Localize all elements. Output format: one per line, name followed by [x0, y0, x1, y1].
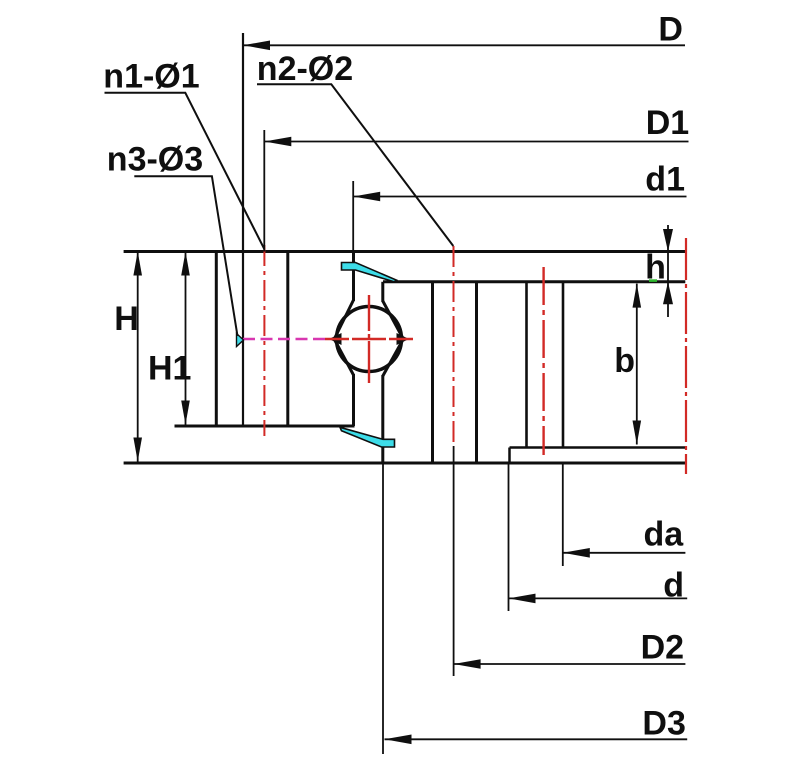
- D3 dimension line: [385, 738, 688, 740]
- green mark under h: [649, 279, 657, 282]
- svg-text:b: b: [614, 342, 635, 380]
- raceway left shoulder upper: [352, 252, 355, 302]
- raceway left shoulder lower: [352, 374, 355, 426]
- da hole right edge / da extension: [562, 282, 565, 448]
- svg-text:n2-Ø2: n2-Ø2: [257, 50, 353, 88]
- svg-text:d: d: [663, 567, 684, 605]
- red centerline ball horizontal: [325, 338, 413, 340]
- n1 hole left edge / D extension line: [242, 33, 244, 426]
- svg-text:D3: D3: [642, 704, 685, 742]
- red centerline da holes: [542, 267, 544, 455]
- bottom face line (with H extension): [124, 462, 686, 465]
- svg-text:da: da: [644, 515, 685, 553]
- svg-text:H: H: [114, 300, 139, 338]
- n2 hole left edge: [431, 282, 434, 463]
- cyan bottom seal: [340, 427, 395, 447]
- raceway flare lower-right: [383, 341, 403, 377]
- D1 dimension line + extension: [263, 130, 265, 252]
- outer ring bottom step line: [510, 446, 686, 449]
- svg-text:d1: d1: [645, 161, 685, 199]
- red centerline n2 holes: [453, 246, 455, 446]
- n2 hole right edge: [475, 282, 478, 463]
- raceway right shoulder lower / D3 extension: [381, 375, 384, 463]
- D dimension line: [243, 44, 685, 46]
- n2 leader: [257, 84, 453, 246]
- outer ring top face line: [383, 280, 685, 283]
- raceway cusp left: [329, 333, 342, 345]
- svg-text:n1-Ø1: n1-Ø1: [103, 57, 199, 95]
- magenta plug centerline: [243, 338, 327, 340]
- step corner vertical / d extension: [508, 448, 511, 464]
- H dimension line with arrows: [137, 252, 139, 462]
- svg-text:D2: D2: [641, 628, 684, 666]
- svg-text:n3-Ø3: n3-Ø3: [107, 141, 203, 179]
- H1 dimension line with arrows: [185, 252, 187, 425]
- red centerline ball vertical: [368, 295, 370, 383]
- ball: [337, 307, 402, 372]
- da hole left edge: [525, 282, 528, 448]
- d1 dimension line + extension: [352, 181, 354, 252]
- red centerline outer edge: [685, 238, 687, 474]
- D2 extension line below part: [453, 446, 455, 676]
- D2 dimension line: [454, 663, 686, 665]
- raceway flare upper-right: [383, 301, 403, 338]
- raceway flare lower-left: [335, 341, 354, 376]
- n3 leader: [134, 176, 237, 336]
- raceway cusp right: [397, 333, 410, 345]
- svg-text:H1: H1: [148, 350, 191, 388]
- d dimension line: [509, 597, 688, 599]
- inner ring bottom face line (with H1 extension): [175, 425, 355, 428]
- red centerline n1 holes: [263, 245, 265, 436]
- raceway flare upper-left: [335, 300, 354, 338]
- svg-text:D1: D1: [646, 104, 689, 142]
- n1 hole right edge: [286, 252, 289, 427]
- svg-text:D: D: [658, 10, 683, 48]
- svg-text:h: h: [645, 249, 666, 287]
- inner ring bore edge: [215, 252, 218, 427]
- cyan top seal: [342, 263, 397, 282]
- h dimension arrows (outside): [667, 225, 669, 317]
- raceway right shoulder upper: [381, 282, 384, 302]
- n1 leader: [105, 93, 265, 249]
- b dimension line with arrows: [636, 284, 638, 445]
- bearing top face line: [124, 250, 686, 253]
- da dimension line: [563, 552, 686, 554]
- cyan plug: [237, 334, 244, 347]
